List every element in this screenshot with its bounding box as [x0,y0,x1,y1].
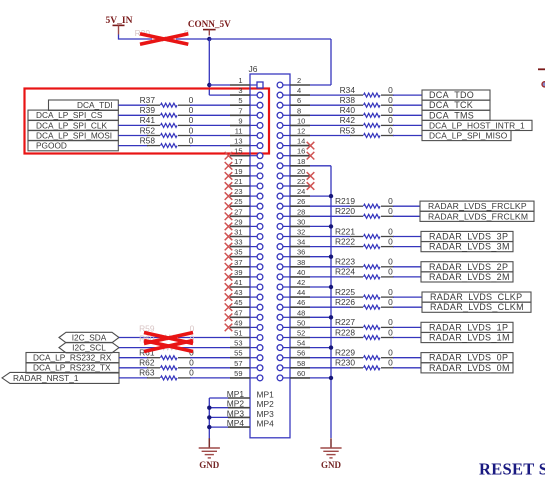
pin 15 [230,147,263,159]
wire R229 to label [393,357,421,359]
wire pin 44 to R225 [310,296,351,298]
wire to pin 1 [209,84,230,86]
pin 33 [230,238,263,250]
svg-text:56: 56 [297,349,305,358]
svg-text:R230: R230 [335,358,355,368]
svg-text:20: 20 [297,167,305,176]
svg-text:0: 0 [189,135,194,145]
pin 38 [277,258,310,270]
svg-text:0: 0 [388,206,393,216]
wire pin 10 to R42 [310,124,351,126]
svg-text:R224: R224 [335,267,355,277]
wire pin 6 to R38 [310,104,351,106]
svg-text:45: 45 [234,298,242,307]
resistor R52 value 0 [140,125,194,137]
cut-off node mark at right edge [542,82,545,87]
pin 46 [277,298,310,310]
svg-text:37: 37 [234,258,242,267]
pin 31 [230,228,263,240]
pin 23 [230,187,263,199]
svg-text:MP4: MP4 [227,418,245,428]
svg-text:GND: GND [321,460,342,470]
svg-text:R58: R58 [140,135,156,145]
svg-text:DCA_LP_SPI_CLK: DCA_LP_SPI_CLK [36,120,107,130]
svg-text:54: 54 [297,339,305,348]
no-connect X pin 27 [225,213,233,221]
pin 21 [230,177,263,189]
svg-text:55: 55 [234,349,242,358]
DNP red X over R60 [144,341,193,352]
svg-text:59: 59 [234,369,242,378]
svg-text:11: 11 [235,127,243,136]
wire CONN_5V down to pins 1,3 [208,39,210,95]
net label RADAR_LVDS_1P [421,322,513,332]
svg-text:I2C_SDA: I2C_SDA [72,332,107,342]
svg-text:GND: GND [199,460,220,470]
wire R37 left lead [118,104,148,106]
pin 52 [277,329,310,341]
svg-text:R40: R40 [340,105,356,115]
svg-text:0: 0 [388,115,393,125]
svg-text:41: 41 [234,278,242,287]
svg-text:0: 0 [189,125,194,135]
pin 58 [277,359,310,371]
ground GND (J6 bus) [320,438,341,470]
wire R62 to pin [190,367,230,369]
no-connect X pin 23 [225,192,233,200]
wire pin 32 to R221 [310,236,351,238]
wire R61 left lead [119,357,148,359]
svg-text:0: 0 [388,85,393,95]
no-connect X pin 33 [225,243,233,251]
resistor R20 (DNP, faded) [135,28,190,41]
wire R223 to label [393,266,421,268]
net label DCA_LP_SPI_CS [28,110,118,120]
wire pin 38 to R223 [310,266,351,268]
wire MP1 [209,397,228,399]
svg-text:52: 52 [297,329,305,338]
pin MP2 [227,399,274,410]
pin 53 [230,339,263,351]
svg-text:0: 0 [189,368,194,378]
svg-text:MP1: MP1 [227,389,245,399]
wire pin 46 to R226 [310,306,351,308]
svg-text:RADAR_LVDS_CLKP: RADAR_LVDS_CLKP [430,292,522,302]
svg-text:I2C_SCL: I2C_SCL [72,343,106,353]
wire R42 to label [393,124,422,126]
pin 25 [230,197,263,209]
net label RADAR_LVDS_2M [421,272,513,282]
pin 55 [230,349,263,361]
svg-text:49: 49 [234,318,242,327]
junction GND bus pin 36 [329,255,333,259]
pin 42 [277,278,310,290]
wire R52 to pin [190,135,230,137]
ground GND (MP bus) [199,438,220,470]
svg-text:DCA_LP_HOST_INTR_1: DCA_LP_HOST_INTR_1 [429,120,525,130]
pin 60 [277,369,310,381]
svg-text:21: 21 [234,177,242,186]
pin 37 [230,258,263,270]
svg-text:0: 0 [388,236,393,246]
svg-text:0: 0 [388,348,393,358]
no-connect X pin 25 [225,202,233,210]
svg-text:17: 17 [234,157,242,166]
svg-text:32: 32 [297,228,305,237]
resistor R53 value 0 [340,125,394,137]
wire R40 to label [393,114,422,116]
pin 43 [230,288,263,300]
pin 17 [230,157,263,169]
junction MP bus [207,415,211,419]
svg-text:0: 0 [388,95,393,105]
net label DCA_TDO [422,90,490,100]
wire R230 to label [393,367,421,369]
resistor R39 value 0 [140,105,194,117]
net label RADAR_LVDS_FRCLKM [420,211,534,221]
DNP red X over R20 [140,34,188,45]
resistor R38 value 0 [340,95,394,107]
resistor R63 value 0 [139,368,194,380]
wire R58 to pin [190,145,230,147]
net label DCA_LP_SPI_CLK [28,120,118,130]
svg-text:6: 6 [297,96,301,105]
svg-text:38: 38 [297,258,305,267]
svg-text:4: 4 [297,86,301,95]
svg-text:13: 13 [234,137,242,146]
wire MP2 [209,407,228,409]
pin 45 [230,298,263,310]
pin 34 [277,238,310,250]
pin 7 [230,106,263,118]
wire R226 to label [393,306,422,308]
net label DCA_LP_HOST_INTR_1 [422,120,532,130]
resistor R34 value 0 [340,85,394,97]
pin 3 [230,86,263,98]
resistor R225 value 0 [335,287,394,299]
resistor R223 value 0 [335,257,394,269]
pin 26 [277,197,310,209]
svg-text:27: 27 [234,207,242,216]
svg-text:8: 8 [297,106,301,115]
no-connect X pin 29 [225,223,233,231]
pin 9 [230,116,263,128]
pin 28 [277,207,310,219]
svg-text:R52: R52 [140,125,156,135]
svg-text:R62: R62 [139,358,155,368]
svg-text:48: 48 [297,308,305,317]
pin 22 [277,177,310,189]
svg-text:0: 0 [388,297,393,307]
wire R63 to pin [190,377,230,379]
svg-text:DCA_TCK: DCA_TCK [429,100,473,110]
DNP red X over R59 [144,333,193,344]
svg-text:2: 2 [297,76,301,85]
wire pin 30 to GND bus [310,225,331,227]
net label DCA_TMS [422,110,490,120]
pin 2 [277,76,310,88]
power symbol 5V_IN [106,16,133,40]
svg-text:R34: R34 [340,85,356,95]
svg-text:44: 44 [297,288,305,297]
svg-text:0: 0 [388,105,393,115]
svg-text:0: 0 [388,287,393,297]
svg-text:26: 26 [297,197,305,206]
svg-text:R221: R221 [335,226,355,236]
pin 8 [277,106,310,118]
no-connect X pin 20 [307,172,315,180]
net label PGOOD [28,140,118,150]
svg-text:RADAR_LVDS_3P: RADAR_LVDS_3P [429,232,508,242]
pin 16 [277,147,310,159]
svg-text:22: 22 [297,177,305,186]
svg-text:CONN_5V: CONN_5V [188,19,231,29]
net label DCA_TCK [422,100,490,110]
wire pin 28 to R220 [310,215,351,217]
svg-text:0: 0 [388,358,393,368]
svg-text:R41: R41 [140,115,156,125]
svg-text:16: 16 [297,147,305,156]
svg-text:R228: R228 [335,327,355,337]
pin 35 [230,248,263,260]
MP ground vertical wire [208,398,210,439]
wire pin 18 to GND bus [310,165,331,167]
svg-text:34: 34 [297,238,305,247]
no-connect X pin 17 [225,162,233,170]
pin 32 [277,228,310,240]
wire pin 34 to R222 [310,246,351,248]
junction GND bus pin 30 [329,224,333,228]
pin 6 [277,96,310,108]
wire to pin 3 [209,94,230,96]
svg-text:RADAR_LVDS_FRCLKM: RADAR_LVDS_FRCLKM [428,211,528,221]
pin 4 [277,86,310,98]
net label RADAR_LVDS_1M [421,332,513,342]
svg-text:29: 29 [234,217,242,226]
wire R60 left lead [119,347,160,349]
no-connect X pin 19 [225,172,233,180]
wire MP3 [209,416,228,418]
wire pin 56 to R229 [310,357,351,359]
no-connect X pin 43 [225,293,233,301]
wire pin 48 to GND bus [310,316,331,318]
connector J6 body [250,74,290,438]
pin 14 [277,137,310,149]
svg-text:0: 0 [388,196,393,206]
svg-text:0: 0 [189,95,194,105]
wire R37 to pin [190,104,230,106]
svg-text:57: 57 [234,359,242,368]
no-connect X pin 39 [225,273,233,281]
svg-text:7: 7 [238,106,242,115]
wire pin 26 to R219 [310,205,351,207]
red highlight rectangle annotation [25,89,270,154]
svg-text:0: 0 [189,358,194,368]
svg-text:30: 30 [297,217,305,226]
wire R39 to pin [190,114,230,116]
resistor R219 value 0 [335,196,394,208]
net label DCA_LP_SPI_MOSI [28,130,118,140]
net label DCA_LP_SPI_MISO [422,130,511,140]
wire pin 4 to R34 [310,94,351,96]
svg-text:RADAR_LVDS_0P: RADAR_LVDS_0P [429,353,508,363]
net label DCA_LP_RS232_TX [26,363,119,373]
pin 59 [230,369,263,381]
svg-text:R39: R39 [140,105,156,115]
wire R220 to label [393,215,420,217]
wire R225 to label [393,296,422,298]
resistor R220 value 0 [335,206,394,218]
svg-text:RADAR_LVDS_1P: RADAR_LVDS_1P [429,322,508,332]
resistor R42 value 0 [340,115,394,127]
pin 56 [277,349,310,361]
svg-text:R226: R226 [335,297,355,307]
svg-text:R42: R42 [340,115,356,125]
svg-text:47: 47 [234,308,242,317]
pin 54 [277,339,310,351]
svg-text:12: 12 [297,127,305,136]
net flag I2C_SCL [59,342,119,352]
svg-text:RADAR_LVDS_2M: RADAR_LVDS_2M [429,272,510,282]
svg-text:MP1: MP1 [257,390,275,400]
no-connect X pin 22 [307,182,315,190]
wire R59 to pin [178,337,230,339]
svg-text:0: 0 [388,125,393,135]
net label DCA_LP_RS232_RX [26,353,119,363]
wire into pin 2 [310,84,331,86]
no-connect X pin 37 [225,263,233,271]
junction at pin 1 branch [207,83,211,87]
resistor R226 value 0 [335,297,394,309]
net label RADAR_LVDS_3M [421,242,513,252]
svg-text:9: 9 [238,116,242,125]
svg-text:R222: R222 [335,236,355,246]
svg-text:53: 53 [234,339,242,348]
pin 10 [277,116,310,128]
svg-text:50: 50 [297,318,305,327]
junction MP bus [207,406,211,410]
wire R39 left lead [118,114,148,116]
wire R38 to label [393,104,422,106]
wire pin 24 to GND bus [310,195,331,197]
net label RADAR_LVDS_FRCLKP [420,201,534,211]
svg-text:0: 0 [388,317,393,327]
pin 1 square pad [230,76,263,88]
no-connect X pin 49 [225,324,233,332]
net label RADAR_LVDS_0P [421,353,513,363]
pin 12 [277,127,310,139]
svg-text:39: 39 [234,268,242,277]
net flag I2C_SDA [59,332,119,342]
svg-text:DCA_LP_SPI_MOSI: DCA_LP_SPI_MOSI [36,130,112,140]
svg-text:33: 33 [234,238,242,247]
wire R58 left lead [118,145,148,147]
resistor R229 value 0 [335,348,394,360]
svg-text:DCA_TDO: DCA_TDO [429,90,474,100]
wire R41 to pin [190,124,230,126]
wire pin 42 to GND bus [310,286,331,288]
resistor R61 value 0 [139,348,194,360]
svg-text:RADAR_LVDS_CLKM: RADAR_LVDS_CLKM [430,302,524,312]
svg-text:18: 18 [297,157,305,166]
junction MP bus [207,425,211,429]
wire R62 left lead [119,367,148,369]
wire R227 to label [393,326,421,328]
svg-text:36: 36 [297,248,305,257]
pin 48 [277,308,310,320]
svg-text:MP4: MP4 [257,419,275,429]
svg-text:35: 35 [234,248,242,257]
svg-text:R219: R219 [335,196,355,206]
resistor R224 value 0 [335,267,394,279]
wire R53 to label [393,135,422,137]
svg-text:R37: R37 [140,95,156,105]
wire R34 to label [393,94,422,96]
pin 19 [230,167,263,179]
resistor R62 value 0 [139,358,194,370]
resistor R58 value 0 [140,135,194,147]
cut-off power bar at right edge [538,68,545,70]
svg-text:51: 51 [234,329,242,338]
junction CONN_5V tee [207,37,211,41]
pin MP3 [227,408,274,419]
pin 41 [230,278,263,290]
wire R59 left lead [119,337,160,339]
svg-text:31: 31 [234,228,242,237]
no-connect X pin 45 [225,303,233,311]
pin 57 [230,359,263,371]
pin 44 [277,288,310,300]
resistor R222 value 0 [335,236,394,248]
svg-text:RADAR_LVDS_2P: RADAR_LVDS_2P [429,262,508,272]
svg-text:R63: R63 [139,368,155,378]
svg-text:RADAR_LVDS_0M: RADAR_LVDS_0M [429,363,510,373]
resistor R221 value 0 [335,226,394,238]
svg-text:RADAR_NRST_1: RADAR_NRST_1 [13,373,79,383]
svg-text:RESET S: RESET S [479,460,545,479]
svg-text:R225: R225 [335,287,355,297]
net label RADAR_LVDS_CLKM [422,302,531,312]
svg-text:R220: R220 [335,206,355,216]
svg-text:MP2: MP2 [257,399,275,409]
svg-text:R229: R229 [335,348,355,358]
svg-text:1: 1 [238,76,242,85]
wire 5V_IN to R20 [119,38,153,40]
pin 29 [230,217,263,229]
resistor R230 value 0 [335,358,394,370]
pin 13 [230,137,263,149]
svg-text:24: 24 [297,187,305,196]
junction GND bus pin 24 [329,194,333,198]
no-connect X pin 41 [225,283,233,291]
svg-text:MP2: MP2 [227,399,245,409]
resistor R59 value 0 (DNP) [139,324,195,340]
svg-text:58: 58 [297,359,305,368]
GND bus vertical [330,166,332,438]
svg-text:R223: R223 [335,257,355,267]
pin 24 [277,187,310,199]
wire R61 to pin [190,357,230,359]
svg-text:25: 25 [234,197,242,206]
svg-text:R38: R38 [340,95,356,105]
wire pin 50 to R227 [310,326,351,328]
pin 36 [277,248,310,260]
svg-text:0: 0 [388,226,393,236]
no-connect X pin 35 [225,253,233,261]
svg-text:RADAR_LVDS_3M: RADAR_LVDS_3M [429,242,510,252]
no-connect X pin 16 [307,152,315,160]
net label DCA_TDI [49,100,119,110]
